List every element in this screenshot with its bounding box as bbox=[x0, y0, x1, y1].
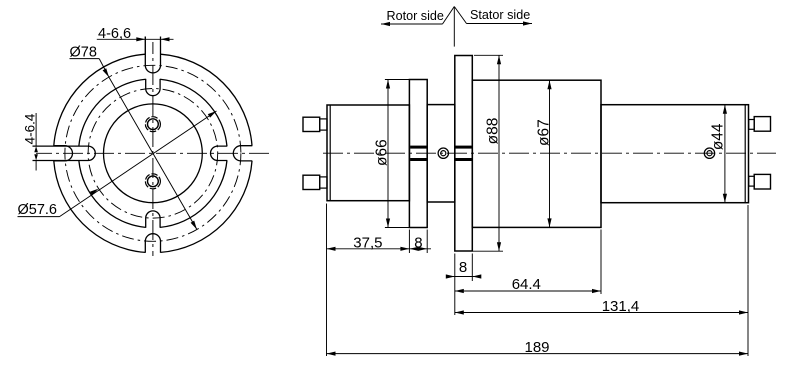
stator cylinder end cap line bbox=[744, 105, 746, 203]
rotor/stator side divider line bbox=[453, 7, 455, 47]
hub between flanges bbox=[427, 105, 455, 202]
svg-text:Stator side: Stator side bbox=[470, 8, 530, 22]
svg-text:131,4: 131,4 bbox=[602, 298, 640, 315]
outer circle flange OD (ø88 side view) with slot gaps bbox=[161, 161, 253, 253]
stator side label and arrow bbox=[454, 7, 466, 24]
rotor connector top-left neck bbox=[320, 119, 327, 130]
stator connector bottom-right neck bbox=[749, 176, 755, 186]
svg-text:ø44: ø44 bbox=[709, 123, 726, 150]
svg-text:Ø57.6: Ø57.6 bbox=[18, 202, 58, 218]
dimension 4-6.4 west slot bbox=[35, 113, 37, 146]
horizontal centerline left view bbox=[36, 152, 269, 154]
slot north (outer 6.6 + inner 6.4) bbox=[145, 37, 160, 73]
stator flange ø88 disc bbox=[455, 56, 473, 252]
svg-text:8: 8 bbox=[459, 259, 467, 276]
slot south bbox=[145, 234, 160, 253]
svg-text:4-6,6: 4-6,6 bbox=[98, 26, 131, 42]
svg-text:ø66: ø66 bbox=[374, 139, 391, 166]
dimension 37,5 bbox=[327, 248, 410, 250]
hub circle (ø44) bbox=[103, 104, 202, 203]
stator cylinder ø44 bbox=[601, 105, 749, 203]
dimension 64.4 bbox=[455, 290, 601, 292]
svg-text:ø67: ø67 bbox=[535, 119, 552, 146]
rotor connector top-left block bbox=[303, 117, 320, 131]
stator body ø67 bbox=[472, 80, 601, 227]
dimension ø67 bbox=[549, 80, 551, 227]
svg-text:Rotor side: Rotor side bbox=[387, 9, 444, 23]
threaded hole bottom bbox=[148, 176, 159, 187]
rotor side label and arrow bbox=[443, 7, 455, 25]
svg-text:ø88: ø88 bbox=[485, 118, 502, 145]
dimension 131,4 bbox=[455, 312, 748, 314]
svg-text:Ø78: Ø78 bbox=[70, 45, 97, 61]
slot east bbox=[233, 146, 252, 161]
rotor flange slot band upper bbox=[410, 146, 426, 149]
dimension Ø57.6 leader and diameter line bbox=[60, 111, 217, 217]
dimension 189 bbox=[327, 353, 749, 355]
stator connector top-right block bbox=[754, 117, 770, 132]
slot west bbox=[54, 146, 73, 161]
stator flange slot band upper bbox=[456, 146, 472, 149]
dimension ø44 bbox=[724, 105, 726, 203]
dimension Ø78 leader and diameter line bbox=[109, 77, 197, 229]
extension lines rotor flange bbox=[408, 230, 410, 254]
left view: front view of slip ring flange bbox=[18, 26, 270, 256]
dimension 4-6,6 top slot bbox=[144, 37, 146, 54]
centering symbol left bbox=[438, 148, 448, 158]
dimension 8 rotor flange bbox=[409, 248, 431, 250]
svg-text:37,5: 37,5 bbox=[353, 234, 382, 251]
rotor flange slot band lower bbox=[410, 158, 426, 161]
dimension ø66 bbox=[385, 79, 410, 81]
extension line left end x=326.5 bbox=[326, 204, 328, 357]
svg-text:8: 8 bbox=[414, 234, 422, 251]
threaded hole top bbox=[148, 119, 159, 130]
vertical centerline left view bbox=[152, 42, 154, 256]
dimension ø88 bbox=[474, 54, 503, 56]
right view: side elevation of slip ring bbox=[303, 7, 776, 357]
rotor flange ø66 disc bbox=[409, 80, 427, 228]
bolt circle Ø57.6 dash-dot bbox=[88, 89, 218, 219]
centering symbol right bbox=[704, 148, 714, 158]
rotor flange circle (ø66) with inner slot gaps bbox=[160, 161, 227, 228]
extension line stator body right bbox=[600, 230, 602, 295]
extension lines stator flange bbox=[454, 254, 456, 316]
stator connector top-right neck bbox=[749, 120, 755, 130]
stator connector bottom-right block bbox=[754, 174, 770, 189]
rotor body end cap line bbox=[329, 105, 331, 201]
bolt circle Ø78 dash-dot bbox=[65, 65, 241, 241]
svg-text:64.4: 64.4 bbox=[512, 276, 541, 293]
svg-text:4-6.4: 4-6.4 bbox=[23, 113, 38, 144]
svg-text:189: 189 bbox=[524, 339, 549, 356]
centerline right view bbox=[323, 152, 776, 154]
dimension 8 stator flange bbox=[446, 276, 480, 278]
rotor connector bottom-left neck bbox=[320, 177, 327, 188]
stator flange slot band lower bbox=[456, 158, 472, 161]
rotor connector bottom-left block bbox=[303, 175, 320, 189]
extension line right end x=748 bbox=[747, 205, 749, 356]
rotor body ø66 barrel bbox=[327, 105, 409, 201]
